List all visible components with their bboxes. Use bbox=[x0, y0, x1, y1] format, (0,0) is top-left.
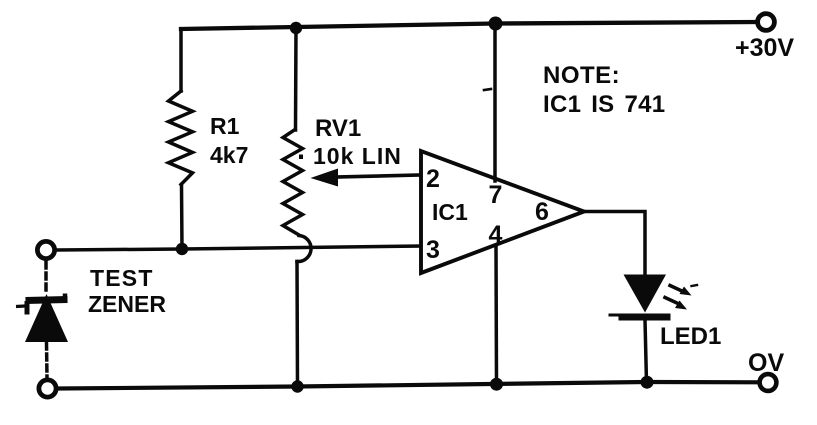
wire top supply rail bbox=[181, 22, 757, 29]
zener diode triangle bbox=[25, 294, 68, 342]
svg-text:2: 2 bbox=[426, 165, 440, 193]
resistor R1 bbox=[169, 29, 193, 249]
node junction top pin7 bbox=[489, 17, 503, 31]
svg-text:IC1: IC1 bbox=[432, 199, 468, 225]
svg-text:10k LIN: 10k LIN bbox=[313, 143, 402, 169]
wire dashed zener top lead bbox=[44, 262, 48, 295]
LED cathode bar bbox=[622, 314, 667, 321]
terminal 0V bbox=[760, 374, 777, 391]
svg-text:NOTE:: NOTE: bbox=[543, 62, 620, 89]
pin 4 wire bbox=[494, 247, 498, 384]
wire LED cathode to 0V rail bbox=[645, 320, 647, 383]
svg-text:TEST: TEST bbox=[90, 265, 154, 291]
wire bottom 0V rail bbox=[59, 382, 759, 389]
svg-text:6: 6 bbox=[535, 198, 549, 226]
terminal +30V bbox=[758, 14, 775, 31]
svg-text:IC1 IS 741: IC1 IS 741 bbox=[543, 91, 665, 118]
zener cathode bar bbox=[16, 294, 68, 315]
LED light arrow upper bbox=[670, 286, 692, 296]
svg-text:LED1: LED1 bbox=[660, 323, 721, 350]
LED light arrow lower bbox=[665, 298, 687, 310]
wire op-amp output bbox=[584, 212, 645, 278]
node junction bottom LED bbox=[641, 376, 654, 389]
svg-text:RV1: RV1 bbox=[315, 115, 361, 142]
stray mark near arrows bbox=[692, 285, 698, 286]
svg-text:4k7: 4k7 bbox=[210, 142, 248, 168]
node junction bottom pin4 bbox=[490, 378, 503, 391]
wiper arrow of RV1 bbox=[336, 175, 421, 177]
potentiometer RV1 bbox=[283, 28, 311, 387]
node junction bottom RV1 bbox=[291, 380, 303, 392]
svg-text:7: 7 bbox=[489, 181, 503, 209]
stray mark left of LED bar bbox=[610, 314, 618, 317]
terminal test zener bottom bbox=[39, 380, 56, 397]
node junction top RV1 bbox=[290, 22, 302, 34]
stray dot before 10k bbox=[299, 155, 303, 160]
svg-text:ZENER: ZENER bbox=[88, 291, 166, 317]
svg-text:R1: R1 bbox=[210, 113, 240, 139]
svg-text:+30V: +30V bbox=[735, 34, 794, 62]
terminal test zener top bbox=[37, 241, 54, 258]
wire inverting input to node A bbox=[57, 246, 421, 250]
LED LED1 diode triangle bbox=[624, 275, 667, 313]
op-amp U1 IC1 triangle bbox=[421, 151, 584, 273]
svg-text:4: 4 bbox=[489, 221, 503, 249]
svg-text:3: 3 bbox=[426, 236, 440, 264]
stray mark left of pin 7 wire bbox=[484, 89, 491, 90]
pin 7 wire bbox=[493, 24, 497, 182]
node A junction R1/zener bbox=[176, 243, 188, 255]
wire dashed zener bottom lead bbox=[45, 343, 49, 378]
svg-text:OV: OV bbox=[748, 349, 784, 377]
